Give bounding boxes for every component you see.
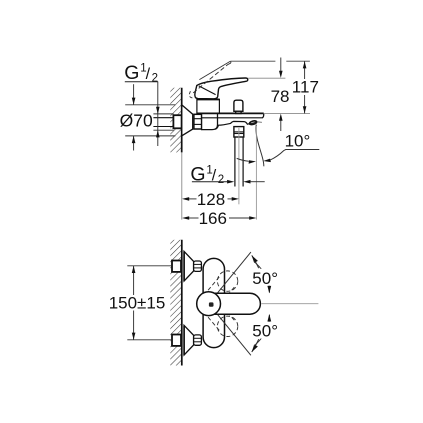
svg-text:10°: 10°: [285, 131, 311, 150]
svg-text:Ø70: Ø70: [120, 111, 153, 131]
svg-text:2: 2: [218, 174, 224, 186]
svg-text:128: 128: [197, 190, 225, 209]
svg-text:50°: 50°: [252, 269, 278, 288]
svg-text:2: 2: [152, 72, 158, 84]
svg-text:166: 166: [199, 209, 227, 228]
svg-text:G: G: [124, 62, 139, 84]
svg-text:50°: 50°: [252, 322, 278, 341]
svg-text:150±15: 150±15: [109, 294, 166, 313]
svg-text:/: /: [146, 66, 151, 83]
svg-text:117: 117: [292, 78, 319, 97]
svg-text:G: G: [190, 164, 205, 186]
svg-text:78: 78: [271, 87, 290, 106]
